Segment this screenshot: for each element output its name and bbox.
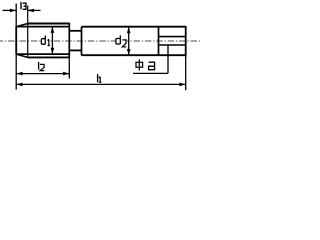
dimension d2 line: [128, 27, 130, 56]
dimension d2 arrowhead bottom (points down): [127, 49, 131, 55]
outline: right end face vertical: [185, 26, 187, 56]
dimension d2 arrowhead top (points up): [127, 27, 131, 33]
extension line at chamfer end / chamfer edge (for l3): [27, 6, 29, 58]
label l1 (subscript 1): [99, 77, 102, 83]
label d1 (subscript 1): [48, 39, 51, 45]
label l1 (letter l): [97, 74, 99, 82]
label l3 (digit 3): [23, 3, 26, 9]
outline: square start vertical: [158, 27, 160, 56]
extension line below right face (for l1): [185, 55, 187, 90]
outline: thread minor bottom line: [16, 53, 69, 55]
dimension l1 line: [16, 83, 186, 85]
label d1 (letter d): [41, 36, 45, 45]
label l3 (letter l): [20, 2, 22, 9]
outline: shank bottom line: [82, 54, 186, 56]
outline: thread major bottom line: [28, 56, 70, 58]
dimension l3 arrowhead left (points right): [10, 9, 16, 13]
dimension l2 arrowhead left (points left): [16, 72, 22, 76]
outline: thread major top line: [28, 23, 70, 25]
extension line at left face (for l3,l2,l1): [15, 4, 17, 90]
outline: neck bottom line: [69, 49, 81, 51]
dimension l2 arrowhead right (points right): [63, 72, 69, 76]
label l2 (subscript 2): [40, 64, 44, 70]
dimension l3 line right part: [28, 9, 41, 11]
outline: left face vertical: [15, 27, 17, 54]
centerline (axis, dash-dot): [0, 40, 200, 42]
label l2 (letter l): [38, 62, 40, 70]
dimension d1 line: [51, 27, 53, 54]
leader shelf / underline of phi-a: [133, 72, 168, 74]
label phi symbol (circle + vertical bar): [136, 62, 143, 67]
leader line for phi-a (vertical from square flat): [167, 45, 169, 73]
label a: [149, 62, 155, 69]
dimension d1 arrowhead bottom (points down): [51, 48, 55, 54]
extension line below thread end (for l2): [68, 57, 70, 79]
outline: thread end vertical: [68, 23, 70, 59]
dimension l1 arrowhead right (points right): [179, 83, 185, 87]
dimension l2 line: [16, 73, 69, 75]
dimension l3 line left part: [3, 9, 17, 11]
label d2 (subscript 2): [122, 40, 126, 47]
dimension l1 arrowhead left (points left): [16, 83, 22, 87]
white mask behind label d2: [115, 35, 127, 47]
outline: bottom chamfer: [16, 54, 28, 57]
outline: neck shoulder vertical: [81, 27, 83, 56]
dimension d1 arrowhead top (points up): [51, 27, 55, 33]
outline: square bottom edge: [159, 44, 186, 46]
outline: square top edge: [159, 36, 186, 38]
dimension l3 arrowhead right (points left): [28, 9, 34, 13]
white mask behind label d1: [40, 35, 50, 46]
outline: top chamfer: [16, 24, 28, 27]
outline: neck top line: [69, 30, 81, 32]
outline: shank top line: [82, 26, 186, 28]
label d2 (letter d): [116, 35, 120, 44]
outline: thread minor top line: [16, 26, 69, 28]
